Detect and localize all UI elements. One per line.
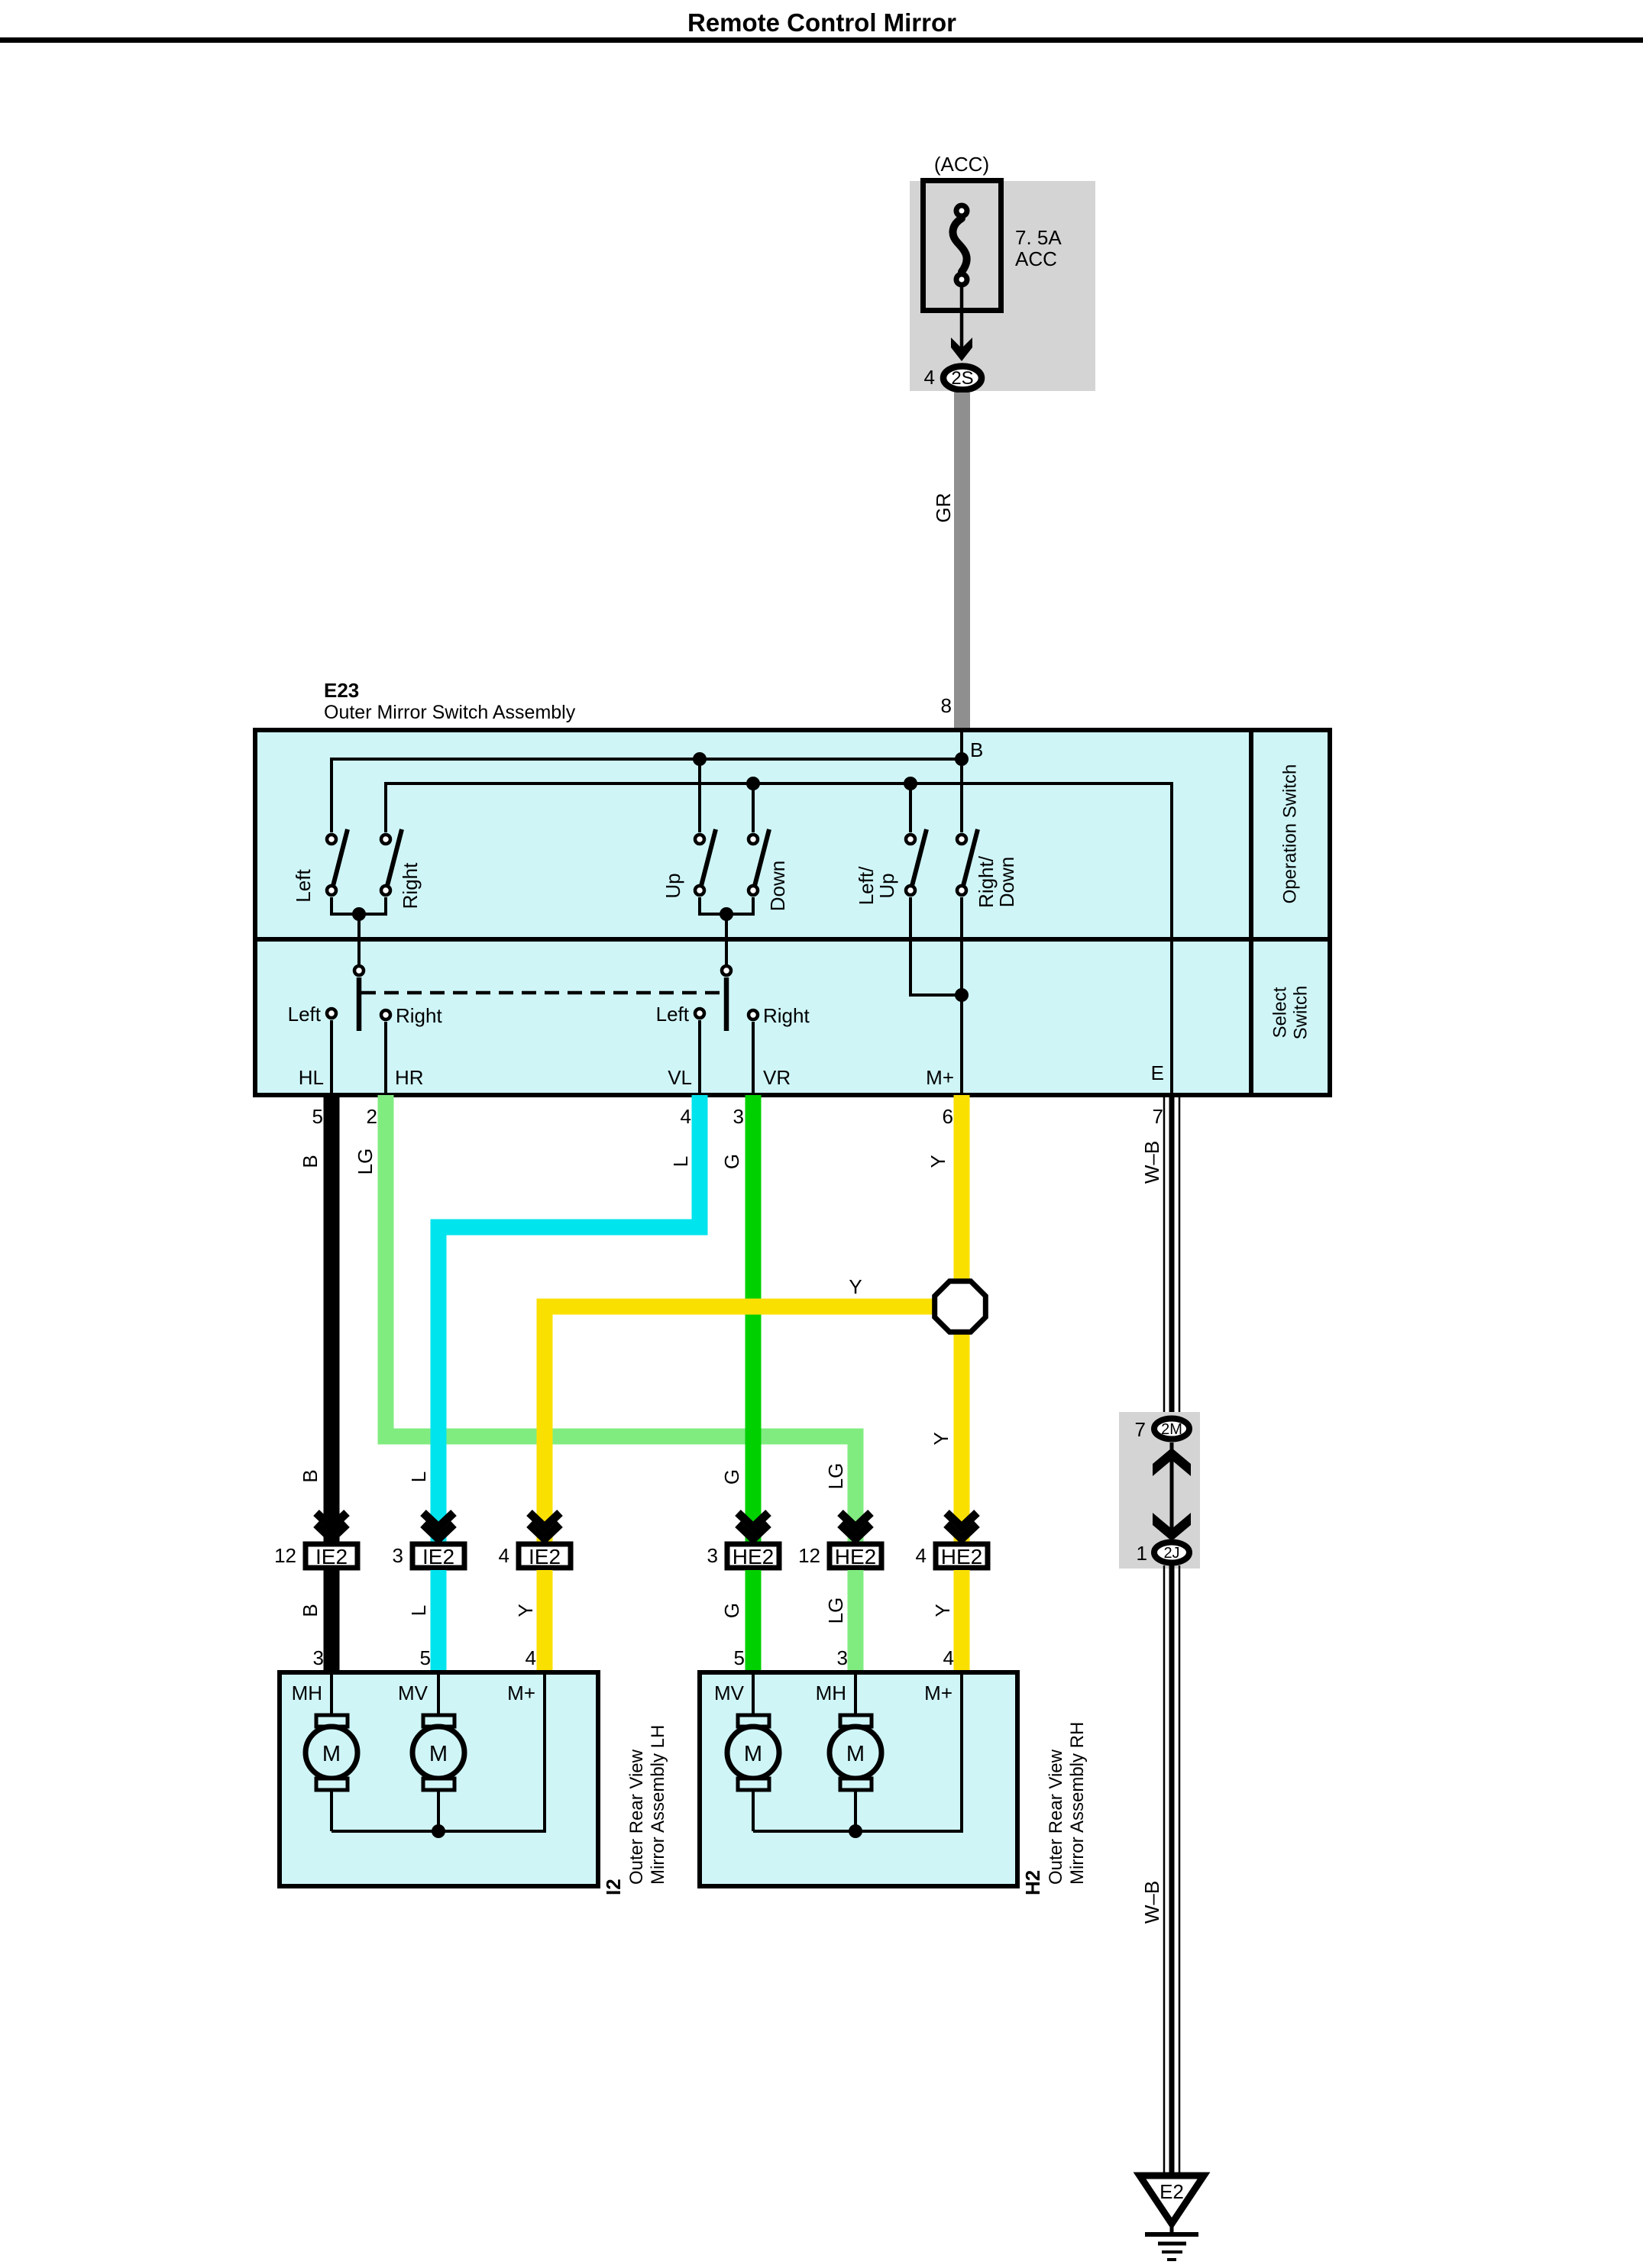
svg-text:E: E — [1151, 1061, 1164, 1084]
wire LG — [386, 1095, 855, 1543]
wire G below HE2 — [745, 1570, 762, 1672]
connector 2J — [1154, 1543, 1189, 1563]
svg-text:M: M — [846, 1742, 865, 1766]
svg-text:Left: Left — [288, 1003, 322, 1026]
svg-text:Y: Y — [931, 1604, 954, 1617]
svg-text:LG: LG — [824, 1598, 847, 1624]
svg-text:M: M — [322, 1742, 341, 1766]
wire VR pin — [752, 1022, 755, 1095]
svg-text:Y: Y — [514, 1604, 537, 1617]
svg-text:Left: Left — [656, 1003, 690, 1026]
wire Y below HE2 — [954, 1570, 970, 1672]
node dot E down — [746, 777, 760, 790]
svg-text:4: 4 — [943, 1646, 954, 1669]
select switch pivot 2 — [722, 966, 731, 975]
svg-text:Up: Up — [875, 873, 898, 898]
svg-text:Remote Control Mirror: Remote Control Mirror — [687, 8, 956, 37]
svg-text:G: G — [720, 1603, 743, 1618]
svg-text:3: 3 — [707, 1544, 718, 1567]
E23 Outer Mirror Switch Assembly box — [255, 730, 1330, 1095]
wire B net — [332, 730, 962, 832]
svg-text:W–B: W–B — [1140, 1881, 1163, 1924]
fuse bottom contact — [956, 274, 967, 285]
svg-text:7. 5A: 7. 5A — [1015, 226, 1062, 249]
svg-text:7: 7 — [1153, 1105, 1163, 1128]
switch Left/Up — [906, 835, 915, 844]
svg-text:Switch: Switch — [1291, 986, 1311, 1040]
arrow into 2M — [1153, 1448, 1191, 1476]
svg-text:ACC: ACC — [1015, 247, 1057, 270]
svg-text:G: G — [720, 1469, 743, 1485]
motor LH MH — [306, 1672, 357, 1831]
switch Up — [695, 835, 704, 844]
svg-text:G: G — [720, 1154, 743, 1169]
wire HR pin — [384, 1022, 387, 1095]
node dot E leftup — [904, 777, 917, 790]
svg-text:B: B — [970, 738, 983, 761]
select switch pivot 1 — [354, 966, 364, 975]
svg-text:Down: Down — [766, 861, 789, 911]
svg-text:4: 4 — [526, 1646, 536, 1669]
connector HE2 pin3 — [707, 1513, 779, 1569]
label column divider — [1249, 730, 1253, 1095]
svg-text:M: M — [744, 1742, 762, 1766]
wire fuse to 2S — [960, 285, 964, 354]
wire Left/Right join — [332, 897, 386, 964]
svg-text:2M: 2M — [1161, 1421, 1182, 1438]
svg-text:IE2: IE2 — [529, 1545, 561, 1569]
select blade 1 — [357, 977, 362, 1031]
connector IE2 pin4 — [499, 1513, 571, 1569]
svg-text:W–B: W–B — [1140, 1141, 1163, 1184]
node dot UD — [720, 907, 733, 921]
svg-text:MH: MH — [816, 1682, 846, 1704]
node dot B pin8 — [955, 752, 969, 766]
svg-text:1: 1 — [1137, 1542, 1147, 1565]
connector 2M — [1154, 1419, 1189, 1439]
connector HE2 pin4 — [916, 1513, 988, 1569]
switch Right — [381, 835, 390, 844]
svg-text:Outer Rear View: Outer Rear View — [626, 1749, 647, 1885]
wire between 2M and 2J — [1170, 1443, 1174, 1539]
wire B below IE2 — [324, 1570, 340, 1672]
wire M+ net — [910, 897, 962, 1095]
select contact VL Left — [695, 1009, 704, 1018]
mechanical link dashed — [361, 991, 724, 995]
svg-text:E23: E23 — [324, 679, 359, 702]
wire B black — [324, 1095, 340, 1543]
svg-text:H2: H2 — [1021, 1870, 1044, 1895]
connector 2S — [943, 367, 982, 390]
switch Left — [327, 835, 336, 844]
svg-text:Y: Y — [849, 1275, 862, 1298]
svg-text:Down: Down — [995, 857, 1018, 907]
svg-text:Left/: Left/ — [855, 866, 878, 905]
svg-text:M: M — [429, 1742, 448, 1766]
svg-text:7: 7 — [1135, 1418, 1146, 1441]
svg-text:E2: E2 — [1159, 2180, 1184, 2203]
wire GR — [954, 393, 970, 730]
svg-text:HE2: HE2 — [733, 1545, 774, 1569]
svg-text:IE2: IE2 — [422, 1545, 454, 1569]
wire Up/Down join — [700, 897, 753, 964]
svg-text:M+: M+ — [507, 1682, 535, 1704]
select contact HR Right — [381, 1010, 390, 1019]
svg-text:3: 3 — [733, 1105, 744, 1128]
svg-text:L: L — [407, 1472, 430, 1482]
select contact VR Right — [749, 1010, 758, 1019]
svg-text:Y: Y — [927, 1155, 949, 1168]
svg-text:4: 4 — [916, 1544, 927, 1567]
select blade 2 — [724, 977, 729, 1031]
ground E2 — [1140, 2176, 1204, 2260]
svg-text:4: 4 — [681, 1105, 691, 1128]
motor RH MV — [727, 1672, 779, 1831]
svg-text:HR: HR — [395, 1066, 424, 1089]
svg-text:(ACC): (ACC) — [934, 153, 989, 176]
svg-text:M+: M+ — [926, 1066, 954, 1089]
node dot M+ — [955, 988, 969, 1002]
svg-text:L: L — [407, 1605, 430, 1616]
svg-text:Left: Left — [292, 869, 315, 903]
wire HL pin — [330, 1020, 333, 1095]
svg-text:I2: I2 — [602, 1879, 625, 1895]
switch Down — [749, 835, 758, 844]
switch Right/Down — [957, 835, 966, 844]
wire LG below HE2 — [848, 1570, 864, 1672]
fuse element — [952, 218, 966, 272]
svg-text:Right: Right — [396, 1004, 442, 1027]
wire Y branch — [545, 1307, 956, 1543]
svg-text:HE2: HE2 — [941, 1545, 982, 1569]
H2 Outer Rear View Mirror Assembly RH box — [700, 1672, 1017, 1886]
svg-text:Operation Switch: Operation Switch — [1280, 764, 1301, 904]
svg-text:GR: GR — [932, 493, 955, 523]
svg-text:HE2: HE2 — [835, 1545, 876, 1569]
wire L below IE2 — [431, 1570, 447, 1672]
svg-text:12: 12 — [798, 1544, 820, 1567]
select contact HL Left — [327, 1009, 336, 1018]
wire Y main — [954, 1095, 970, 1543]
svg-text:3: 3 — [393, 1544, 403, 1567]
svg-text:Outer Rear View: Outer Rear View — [1046, 1749, 1066, 1885]
wire LH common — [332, 1672, 545, 1831]
title rule — [0, 37, 1643, 43]
svg-text:8: 8 — [941, 694, 952, 717]
svg-text:5: 5 — [312, 1105, 323, 1128]
node dot LH — [432, 1824, 445, 1838]
svg-text:B: B — [299, 1469, 322, 1482]
svg-text:Y: Y — [930, 1432, 952, 1445]
svg-text:2J: 2J — [1163, 1545, 1179, 1562]
svg-text:M+: M+ — [924, 1682, 952, 1704]
svg-text:B: B — [299, 1155, 322, 1168]
connector HE2 pin12 — [798, 1513, 881, 1569]
splice octagon — [935, 1281, 986, 1333]
svg-text:MH: MH — [292, 1682, 322, 1704]
I2 Outer Rear View Mirror Assembly LH box — [280, 1672, 598, 1886]
svg-text:2S: 2S — [951, 368, 973, 389]
svg-text:2: 2 — [367, 1105, 377, 1128]
svg-text:Right/: Right/ — [975, 855, 998, 908]
svg-text:4: 4 — [924, 366, 935, 389]
svg-text:MV: MV — [714, 1682, 745, 1704]
svg-text:5: 5 — [734, 1646, 745, 1669]
operation/select divider — [255, 937, 1330, 942]
svg-text:LG: LG — [824, 1463, 847, 1490]
svg-text:MV: MV — [398, 1682, 429, 1704]
svg-text:3: 3 — [313, 1646, 324, 1669]
wire VL pin — [698, 1020, 701, 1095]
svg-text:5: 5 — [420, 1646, 431, 1669]
svg-text:VL: VL — [668, 1066, 692, 1089]
svg-text:HL: HL — [299, 1066, 324, 1089]
motor RH MH — [830, 1672, 881, 1831]
svg-text:Outer Mirror Switch Assembly: Outer Mirror Switch Assembly — [324, 702, 576, 723]
svg-text:Right: Right — [763, 1004, 810, 1027]
node dot LR — [352, 907, 366, 921]
svg-text:LG: LG — [354, 1149, 377, 1175]
svg-text:VR: VR — [763, 1066, 791, 1089]
wire L cyan — [438, 1095, 700, 1543]
wire W-B upper — [1164, 1095, 1179, 1419]
svg-text:4: 4 — [499, 1544, 509, 1567]
svg-text:6: 6 — [943, 1105, 953, 1128]
motor LH MV — [412, 1672, 464, 1831]
node dot RH — [849, 1824, 862, 1838]
wire RH common — [753, 1672, 962, 1831]
svg-text:Mirror Assembly RH: Mirror Assembly RH — [1067, 1722, 1088, 1885]
wire W-B lower — [1164, 1565, 1179, 2173]
connector IE2 pin3 — [393, 1513, 464, 1569]
wire Y below IE2 — [537, 1570, 553, 1672]
fuse top contact — [956, 205, 967, 216]
arrow into 2S — [951, 338, 972, 361]
svg-text:Up: Up — [661, 873, 684, 898]
wire E net — [386, 783, 1172, 1095]
svg-text:Right: Right — [399, 862, 422, 909]
fuse box 7.5A ACC — [923, 181, 1001, 311]
svg-text:IE2: IE2 — [315, 1545, 348, 1569]
junction block 2M/2J grey background — [1119, 1412, 1200, 1569]
svg-text:L: L — [669, 1156, 692, 1167]
connector IE2 pin12 — [274, 1513, 357, 1569]
svg-text:B: B — [299, 1604, 322, 1617]
svg-text:12: 12 — [274, 1544, 296, 1567]
svg-text:Mirror Assembly LH: Mirror Assembly LH — [648, 1725, 668, 1885]
fuse block grey background — [910, 181, 1095, 391]
node dot B up — [693, 752, 707, 766]
svg-text:3: 3 — [837, 1646, 848, 1669]
arrow into 2J — [1153, 1513, 1191, 1541]
svg-text:Select: Select — [1270, 987, 1291, 1038]
wire G green — [745, 1095, 762, 1543]
